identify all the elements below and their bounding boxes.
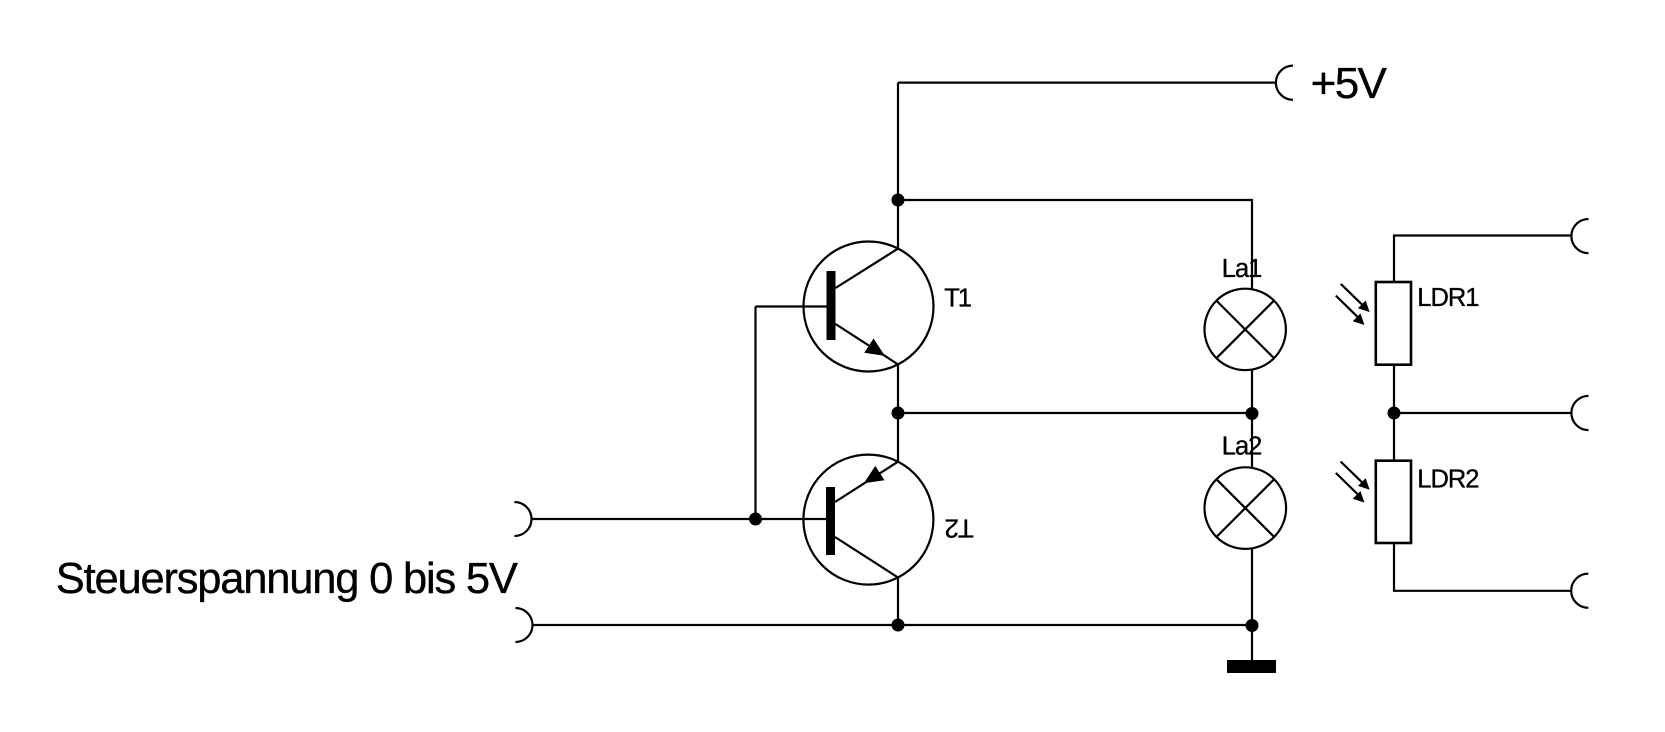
wire bottom rail [533,624,1253,626]
svg-text:Steuerspannung 0 bis 5V: Steuerspannung 0 bis 5V [56,555,518,603]
terminal right middle connector [1571,396,1588,430]
wire ground stem [1251,625,1253,660]
node junction La1/La2 [1246,407,1259,420]
light arrows LDR1 [1336,284,1370,325]
resistor LDR2 [1376,461,1411,543]
ground [1227,660,1276,673]
node junction LDR [1388,407,1401,420]
wire LDR1 bottom to junction [1393,365,1395,461]
wire LDR1 top to terminal [1394,236,1572,283]
node junction T2 emitter [892,619,905,632]
terminal input upper connector [515,502,532,536]
node junction ground [1246,619,1259,632]
svg-text:La1: La1 [1222,255,1262,283]
lamp La2 [1205,467,1287,549]
wire LDR2 bottom to terminal [1394,543,1571,591]
node junction T1/T2 [892,407,905,420]
svg-text:LDR1: LDR1 [1417,284,1478,312]
svg-text:+5V: +5V [1311,59,1388,108]
wire middle right rail [1394,412,1572,414]
resistor LDR1 [1376,282,1411,365]
svg-text:La2: La2 [1222,433,1262,461]
wire T1 base down to T2 base [754,307,756,520]
wire La2 bottom [1251,548,1253,625]
lamp La1 [1205,289,1286,370]
wire branch to La1 [898,200,1252,290]
transistor Q T2 [532,455,934,585]
transistor Q T1 [756,242,934,372]
wire +5V rail [898,81,1276,83]
wire La2 top [1251,413,1253,468]
node junction above T1 [892,194,905,207]
wire La1 bottom [1251,369,1253,413]
terminal right upper connector [1571,219,1588,253]
terminal right lower connector [1571,574,1588,608]
node T2 base junction [749,513,762,526]
svg-text:T1: T1 [944,284,971,312]
wire T1 emitter to junction [897,364,899,461]
svg-text:T2: T2 [945,514,974,544]
terminal input lower connector [516,608,533,642]
wire middle rail to La junction [898,412,1252,414]
terminal +5V connector [1276,66,1293,100]
svg-text:LDR2: LDR2 [1417,465,1478,493]
light arrows LDR2 [1336,462,1370,503]
wire T2 emitter to bottom rail [897,578,899,626]
wire collector T1 vertical [897,83,899,249]
